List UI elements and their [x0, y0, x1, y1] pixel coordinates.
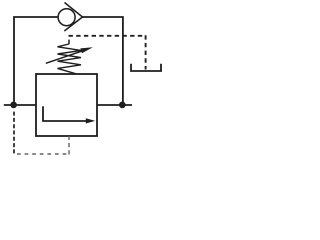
valve flow path arrowhead: [86, 118, 95, 123]
check valve circle (ball): [58, 9, 75, 26]
pilot line dashed horizontal: [69, 35, 146, 37]
node junction dot right: [119, 102, 126, 109]
node junction dot left: [10, 102, 17, 109]
valve flow path L-shaped line: [43, 106, 87, 121]
check valve seat lower line: [64, 17, 82, 31]
spring zigzag: [58, 44, 82, 74]
drain line dashed vertical gray riser to box: [68, 137, 70, 155]
valve envelope box: [36, 74, 97, 136]
drain line dashed horizontal gray: [17, 153, 69, 155]
spring adjustment arrow shaft: [46, 50, 85, 63]
pilot line dashed vertical to tank: [145, 35, 147, 69]
tank reservoir symbol: [131, 64, 161, 71]
spring adjustment arrowhead: [80, 47, 93, 53]
wire: top bypass left segment with left riser: [14, 17, 58, 105]
pilot tick above spring: [68, 40, 70, 45]
drain line dashed vertical below left node: [13, 112, 15, 155]
wire: main line right port stub: [97, 104, 132, 106]
wire: main line left port stub: [4, 104, 36, 106]
check valve seat upper line: [65, 3, 83, 18]
wire: top bypass right segment with right riser: [82, 17, 123, 105]
